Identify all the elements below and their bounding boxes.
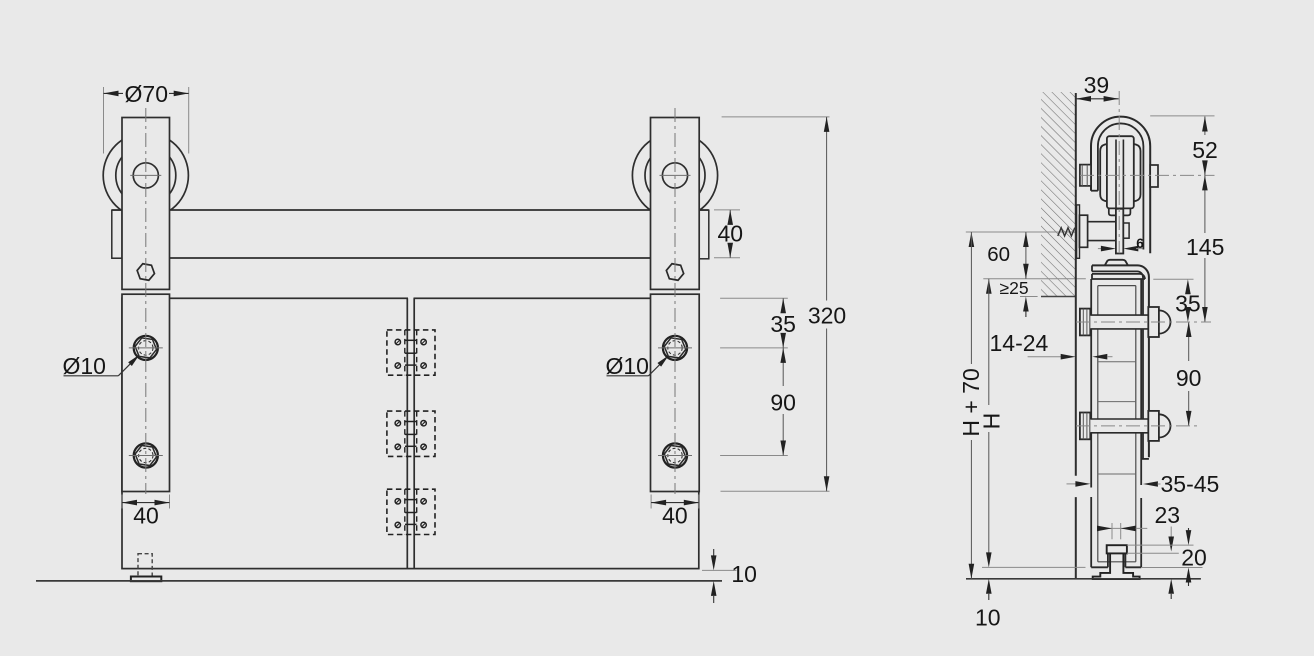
floor line side	[966, 578, 1201, 580]
hex nut right strap	[665, 263, 685, 281]
svg-text:10: 10	[975, 605, 1001, 631]
svg-text:≥25: ≥25	[1000, 278, 1029, 298]
door groove lines	[1108, 545, 1126, 567]
wheel hub side	[1107, 136, 1134, 208]
svg-text:10: 10	[731, 561, 757, 587]
label D10 left with leader	[63, 353, 140, 379]
svg-text:40: 40	[662, 502, 688, 528]
door gap opening at top	[408, 297, 414, 300]
dimension 90 side	[1176, 322, 1202, 426]
svg-text:52: 52	[1192, 137, 1218, 163]
axle left	[130, 163, 161, 188]
lag screw threads	[1058, 228, 1075, 236]
door bolt upper	[1076, 307, 1176, 337]
arrow below floor at guide	[1168, 579, 1174, 599]
dimension 35 side	[1153, 279, 1200, 322]
centerline right roller	[674, 108, 676, 494]
floor guide body	[1093, 553, 1140, 579]
axle bolt head left	[1080, 165, 1091, 186]
hinge H2	[387, 411, 435, 456]
dimension >=25	[1000, 278, 1038, 317]
dimension 40 bottom-left	[122, 495, 170, 529]
svg-text:60: 60	[987, 243, 1010, 266]
dimension H+70	[958, 232, 984, 579]
hanger plate 6mm	[1116, 209, 1123, 254]
hinge H3	[387, 489, 435, 534]
hanger strap upper-left	[122, 118, 170, 290]
FRONT-VIEW	[36, 81, 846, 603]
bracket top flange and right leg	[1092, 265, 1149, 459]
axle centerline	[1080, 174, 1215, 176]
centerline extension bolt lower	[1176, 425, 1200, 427]
wall hatching	[1041, 92, 1076, 297]
washer plate on wall	[1077, 205, 1080, 258]
centerline extension for 145	[1176, 321, 1211, 323]
door panels outline	[122, 298, 699, 568]
dimension 20	[1127, 528, 1207, 586]
wall face and bracket back plate	[1075, 93, 1077, 579]
strap plate lower-right	[651, 294, 700, 491]
rail bar	[112, 210, 709, 258]
svg-text:39: 39	[1084, 72, 1110, 98]
svg-text:320: 320	[808, 303, 846, 329]
hanger strap arch inner	[1098, 123, 1144, 249]
svg-text:35: 35	[770, 311, 796, 337]
svg-text:14-24: 14-24	[990, 330, 1049, 356]
dimension 60	[987, 232, 1028, 279]
spacer barrel	[1080, 215, 1088, 247]
strap left leg end	[1091, 190, 1098, 192]
dimension 23	[1097, 502, 1180, 552]
dimension 14-24	[990, 330, 1113, 360]
hinge H1	[387, 330, 435, 375]
wheel left (outer + groove circles)	[103, 133, 188, 218]
svg-text:Ø70: Ø70	[125, 81, 168, 107]
bolt shaft to strap	[1088, 222, 1116, 241]
wheel flange left	[1100, 144, 1107, 201]
dimension 145	[1186, 175, 1224, 322]
svg-text:90: 90	[770, 390, 796, 416]
svg-text:35-45: 35-45	[1161, 471, 1220, 497]
door split gap lines	[407, 298, 414, 568]
wheel right (outer + groove circles)	[632, 133, 717, 218]
axle nut right	[1150, 165, 1158, 187]
dimension 90 front	[720, 348, 796, 456]
dimension 35-45	[1067, 471, 1220, 497]
dimension 10 front	[702, 549, 757, 603]
adjuster dome on bracket	[1105, 260, 1128, 266]
svg-text:90: 90	[1176, 365, 1202, 391]
door inner edge lines	[1098, 286, 1136, 562]
dimension 40 rail	[714, 210, 743, 258]
bolt B4 right plate	[658, 443, 692, 467]
floor guide cap	[1107, 545, 1127, 553]
hanger strap arch outer	[1091, 117, 1150, 254]
bolt B2 left plate	[129, 443, 163, 467]
bolt B3 right plate	[658, 336, 692, 360]
dimension 40 bottom-right	[651, 495, 699, 529]
witness line door top	[983, 278, 1086, 280]
axle right	[660, 163, 691, 188]
SIDE-VIEW	[958, 72, 1224, 630]
dimension 35 front	[720, 298, 796, 386]
dimension 52	[1150, 116, 1218, 233]
svg-text:20: 20	[1181, 545, 1207, 571]
wall bottom edge	[1041, 296, 1076, 298]
svg-text:40: 40	[718, 221, 744, 247]
door core lines	[1098, 362, 1136, 474]
dimension 6	[1098, 236, 1144, 252]
door top clamp plate	[1092, 274, 1145, 279]
svg-text:6: 6	[1136, 236, 1144, 251]
dimension 10 side	[975, 567, 1085, 630]
rail end spacer right	[699, 210, 709, 259]
bolt B1 left plate	[129, 336, 163, 360]
centerline left roller	[145, 108, 147, 494]
dimension 320	[721, 117, 847, 491]
hex nut left strap	[136, 263, 156, 281]
rail end spacer left	[112, 210, 122, 258]
svg-text:40: 40	[133, 502, 159, 528]
door bolt lower	[1076, 411, 1176, 441]
dimension H	[978, 279, 1004, 568]
floor stop foot	[131, 577, 161, 582]
wheel lower hub stub	[1109, 208, 1131, 215]
nut on strap plate	[1123, 223, 1129, 238]
hanger strap upper-right	[651, 118, 700, 290]
dimension D70	[104, 81, 189, 154]
roller centerline vertical	[1118, 91, 1120, 253]
label D10 right with leader	[606, 353, 669, 379]
floor line front	[36, 580, 722, 582]
wheel groove lines	[1116, 140, 1123, 209]
svg-text:23: 23	[1155, 502, 1181, 528]
wheel flange right	[1134, 144, 1141, 201]
dimension 39	[1076, 72, 1119, 101]
door panel side faces	[1091, 279, 1141, 567]
svg-text:145: 145	[1186, 234, 1224, 260]
svg-text:H: H	[978, 413, 1004, 430]
floor stop stud (hidden)	[138, 554, 152, 577]
strap plate lower-left	[122, 294, 170, 491]
witness line lag-bolt axis	[966, 231, 1085, 233]
